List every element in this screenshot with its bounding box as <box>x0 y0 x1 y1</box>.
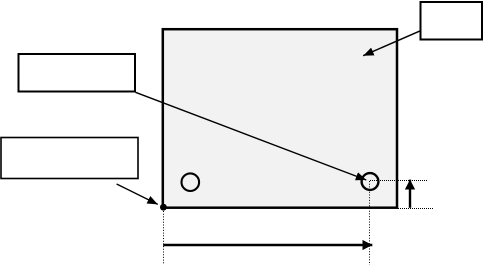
leader arrow from bottom-left callout to corner point <box>117 184 158 204</box>
extension line (dotted horizontal from right hole center) <box>370 180 427 182</box>
horizontal dimension arrow (hole distance from left corner) <box>163 244 372 246</box>
leader arrow from middle-left callout to right hole <box>136 92 367 180</box>
bottom-left callout box <box>1 138 138 179</box>
gray plate (main part body) <box>163 29 397 208</box>
extension line (dotted vertical from right hole center) <box>369 181 371 265</box>
datum point (filled dot at plate bottom-left corner) <box>160 204 167 211</box>
extension line (dotted vertical at plate bottom-left corner) <box>163 211 165 265</box>
left hole <box>182 173 200 191</box>
leader arrow from top-right callout to plate surface <box>363 31 420 56</box>
vertical dimension arrow (hole height above bottom edge) <box>409 180 411 208</box>
extension line (dotted horizontal at plate bottom edge) <box>398 208 433 210</box>
right hole <box>362 173 379 190</box>
middle-left callout box <box>19 54 136 92</box>
top-right callout box <box>421 2 483 40</box>
